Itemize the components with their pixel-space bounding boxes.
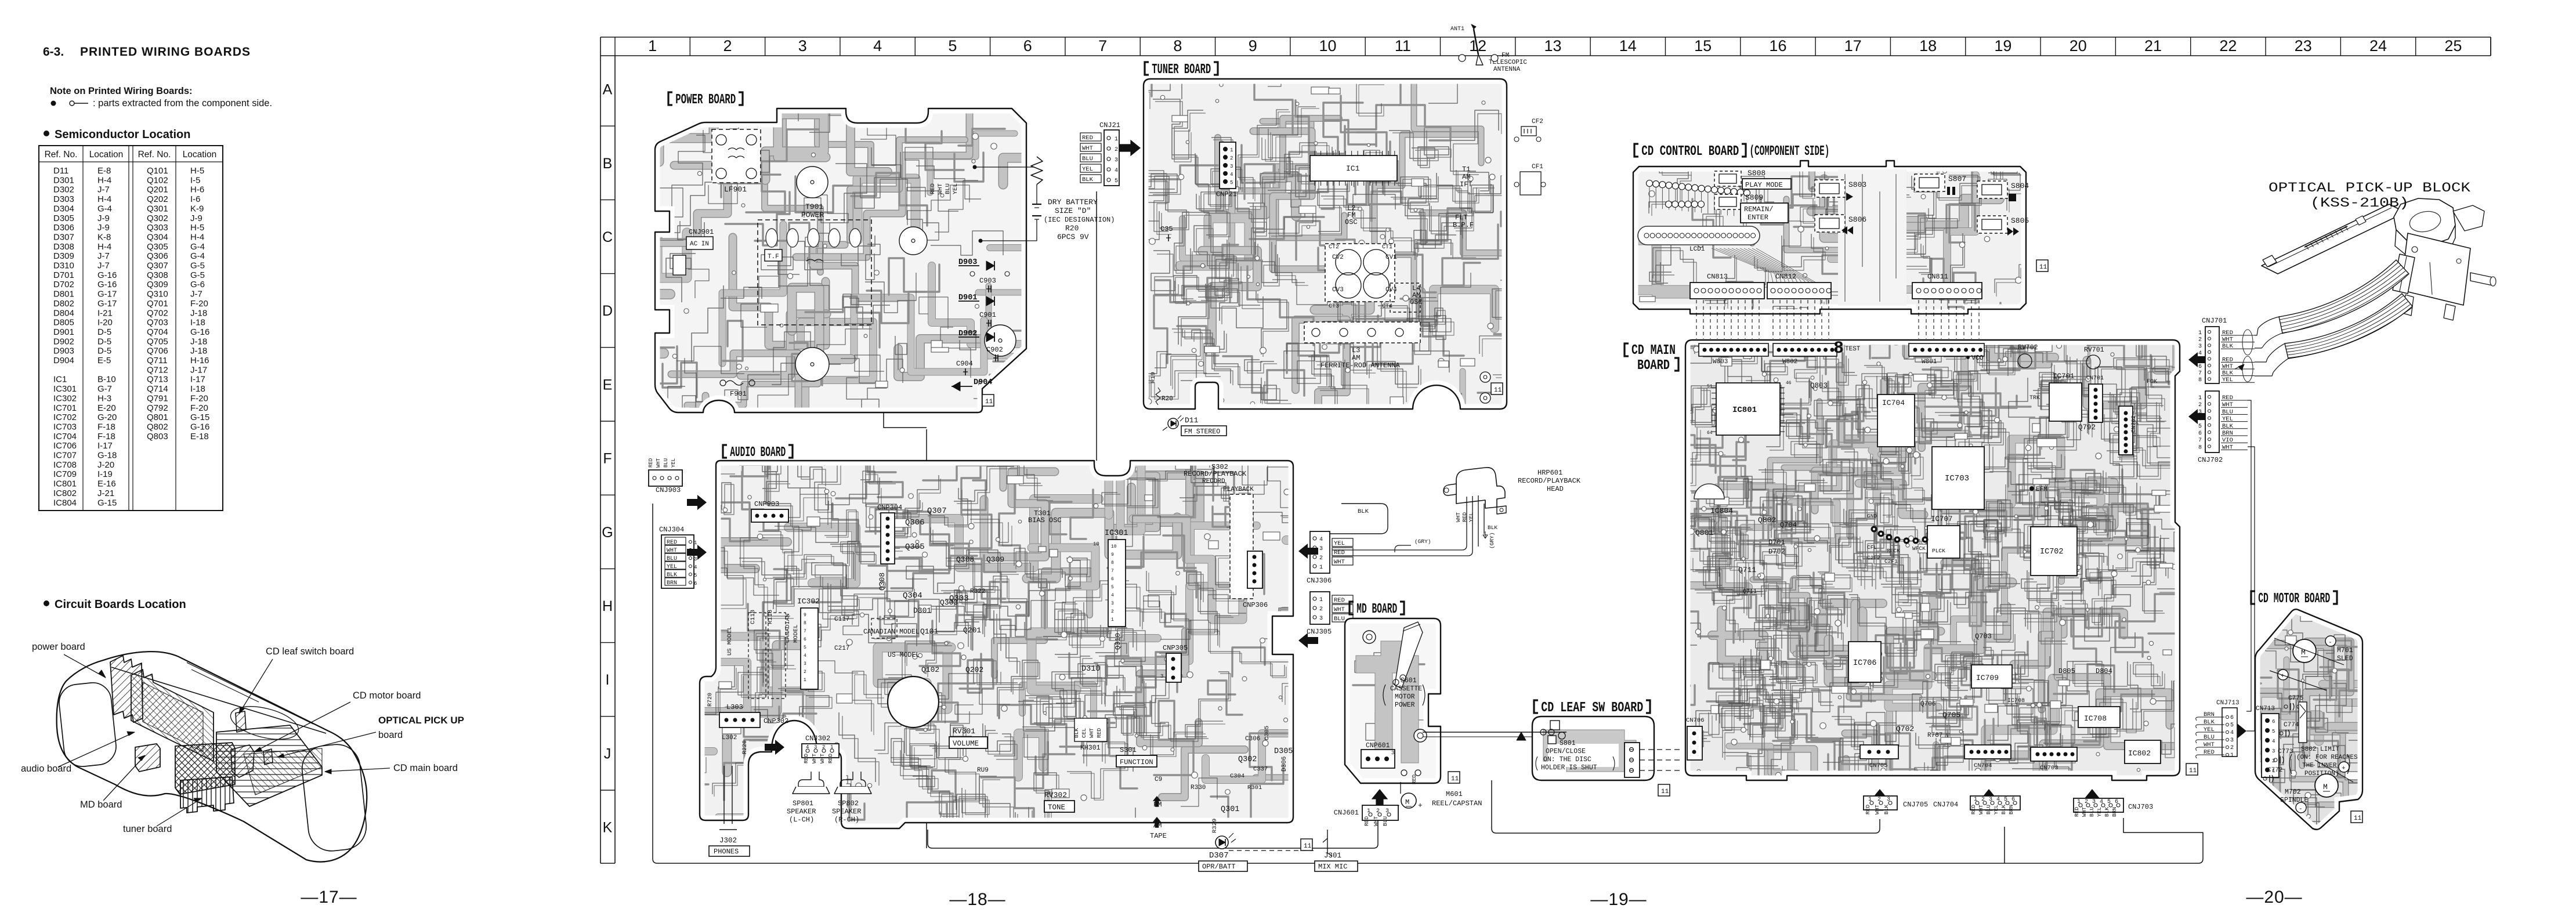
svg-text:US MODEL: US MODEL (888, 652, 920, 659)
svg-text:BLK: BLK (2000, 805, 2007, 815)
svg-text:IC703: IC703 (1945, 474, 1969, 483)
pickup body (2394, 198, 2455, 246)
svg-text:I-18: I-18 (190, 384, 205, 394)
ribbon connector block (2393, 254, 2415, 294)
svg-text:D305: D305 (1274, 747, 1293, 756)
svg-text:SPEAKER: SPEAKER (787, 808, 816, 816)
svg-text:I-5: I-5 (190, 175, 201, 185)
svg-text:RED: RED (827, 754, 834, 763)
svg-text:G-4: G-4 (190, 251, 205, 261)
arrow out right cd main 1 (2188, 352, 2208, 367)
svg-text:Note on Printed Wiring Boards:: Note on Printed Wiring Boards: (50, 86, 193, 96)
svg-text:IFT: IFT (1460, 180, 1472, 189)
switch S809 REMAIN/ENTER (1714, 194, 1741, 209)
svg-text:CN705: CN705 (1869, 762, 1888, 769)
svg-text:I: I (606, 672, 610, 688)
svg-text:D305: D305 (53, 213, 74, 223)
svg-text:TAPE: TAPE (1150, 832, 1167, 840)
wire bottom bus (653, 504, 2203, 863)
svg-text:RED: RED (1461, 512, 1468, 522)
screw marker 11 audio (1301, 839, 1312, 851)
svg-text:5: 5 (2004, 797, 2007, 803)
svg-text:RECORD/PLAYBACK: RECORD/PLAYBACK (1518, 477, 1581, 485)
svg-text:F-20: F-20 (190, 403, 208, 413)
svg-text:Q101: Q101 (147, 166, 168, 176)
svg-text:CNP306: CNP306 (1243, 601, 1268, 609)
leaf sw connector (1625, 743, 1640, 777)
svg-text:IC709: IC709 (1976, 674, 1999, 682)
svg-text:Q304: Q304 (903, 591, 922, 600)
svg-text:4: 4 (806, 744, 809, 750)
svg-text:H-5: H-5 (190, 166, 204, 176)
svg-text:PLCK: PLCK (1932, 548, 1945, 554)
svg-text:7: 7 (804, 629, 806, 634)
svg-text:BLU: BLU (1082, 155, 1093, 162)
svg-text:6: 6 (2115, 799, 2118, 805)
svg-text:IC302: IC302 (53, 393, 77, 403)
record playback switch dashed (1230, 494, 1253, 599)
svg-text:5: 5 (948, 37, 957, 55)
svg-text:T1: T1 (1462, 165, 1470, 173)
svg-text:D310: D310 (53, 261, 74, 271)
svg-text:Q801: Q801 (1695, 529, 1713, 537)
svg-text:IC802: IC802 (53, 488, 77, 498)
svg-text:IC701: IC701 (53, 403, 77, 413)
svg-text:1: 1 (2198, 330, 2202, 336)
pad circle big 4 (985, 325, 1016, 356)
svg-text:2: 2 (2198, 337, 2202, 343)
svg-text:K-9: K-9 (190, 204, 204, 213)
svg-text:FERRITE-ROD ANTENNA: FERRITE-ROD ANTENNA (1320, 361, 1401, 370)
center board hatched panel (175, 743, 235, 794)
svg-text:IC708: IC708 (53, 460, 77, 470)
svg-text:WHT: WHT (656, 458, 661, 468)
svg-text:C217: C217 (834, 645, 849, 652)
svg-text:I-18: I-18 (190, 318, 205, 328)
screw marker 11 control (2036, 260, 2048, 272)
svg-text:DRY BATTERY: DRY BATTERY (1048, 198, 1098, 207)
svg-text:WHT: WHT (937, 183, 944, 194)
svg-text:tuner board: tuner board (123, 824, 172, 834)
arrow audio CNJ304 into board (687, 545, 707, 560)
svg-text:Q306: Q306 (147, 251, 168, 261)
fan sweep traces to CN812 (1712, 248, 1773, 283)
svg-text:Q101: Q101 (920, 627, 938, 636)
svg-text:CNJ704: CNJ704 (1933, 801, 1958, 809)
svg-text:H-4: H-4 (190, 232, 204, 242)
svg-text:IC302: IC302 (797, 597, 820, 606)
svg-text:CD MOTOR BOARD: CD MOTOR BOARD (2258, 591, 2330, 607)
pickup side pin cylinder (2470, 273, 2492, 285)
switch S803 play (1815, 180, 1845, 197)
pad circle big 2 (899, 227, 927, 255)
svg-text:SP802: SP802 (838, 799, 859, 808)
D307 OPR/BATT LED (1215, 836, 1228, 849)
dashed wire audio bottom (1229, 850, 1314, 851)
svg-text:G-16: G-16 (190, 327, 209, 337)
IC708 chip (2078, 707, 2120, 728)
svg-text:Q201: Q201 (963, 626, 981, 635)
svg-text:6: 6 (2198, 364, 2202, 370)
svg-text:RV301: RV301 (953, 727, 975, 736)
svg-text:W803: W803 (1713, 359, 1728, 365)
screw marker 11 tuner (1491, 383, 1503, 395)
ribbon cable lower (2285, 294, 2412, 359)
svg-text:6: 6 (2011, 797, 2015, 803)
svg-text:CNP305: CNP305 (1163, 644, 1188, 652)
svg-text:BOARD: BOARD (1637, 358, 1670, 374)
svg-text:R19: R19 (1150, 372, 1157, 383)
svg-text:OSC: OSC (1345, 218, 1358, 226)
svg-text:4: 4 (804, 653, 806, 658)
leaf sw dashed wires to cd main (1640, 749, 1683, 750)
svg-text:+: + (1418, 801, 1423, 810)
svg-text:J-9: J-9 (97, 223, 110, 233)
svg-text:D804: D804 (2096, 667, 2112, 675)
switch S805 ff (1977, 216, 2007, 233)
svg-text:Location: Location (89, 150, 124, 160)
svg-text:3: 3 (2198, 409, 2202, 415)
svg-text:1: 1 (2077, 799, 2081, 805)
svg-text:BLU: BLU (945, 183, 951, 194)
connector CNJ306 (1310, 531, 1330, 573)
svg-text:6: 6 (2272, 719, 2275, 725)
svg-text:Q308: Q308 (878, 573, 887, 591)
svg-text:YEL: YEL (1993, 805, 1999, 815)
arrow up CNJ705 (1872, 789, 1888, 810)
svg-text:IC1: IC1 (53, 375, 67, 385)
svg-text:CV4: CV4 (1385, 287, 1397, 294)
svg-text:BLU: BLU (667, 556, 677, 562)
svg-text:H-5: H-5 (190, 223, 204, 233)
svg-text:CF2: CF2 (1532, 118, 1543, 125)
IC302 chip (801, 608, 818, 689)
IC701 chip (2049, 383, 2082, 421)
svg-text:RED: RED (803, 754, 809, 763)
svg-text:FUNCTION: FUNCTION (1120, 758, 1153, 766)
svg-text:6: 6 (1023, 37, 1032, 55)
svg-text:FM STEREO: FM STEREO (1184, 428, 1220, 436)
svg-text:BLK: BLK (1073, 728, 1080, 738)
svg-text:S809: S809 (1745, 193, 1763, 202)
svg-text:Q706: Q706 (147, 346, 168, 356)
svg-text:IC707: IC707 (1931, 515, 1953, 523)
top connector W802 (1773, 343, 1837, 356)
cd leaf sw board title (1534, 700, 1538, 713)
speaker SP802 (840, 772, 866, 787)
svg-text:IC704: IC704 (53, 432, 77, 441)
IC703 chip (1932, 447, 1984, 509)
screw marker 11 leaf sw (1658, 784, 1670, 796)
record playback head HRP601 (1456, 468, 1505, 508)
svg-text:16: 16 (1769, 37, 1786, 55)
svg-text:D307: D307 (1209, 851, 1229, 860)
svg-text:H-3: H-3 (97, 393, 111, 403)
svg-text:—20—: —20— (2246, 888, 2302, 907)
connector CNJ703 (2074, 798, 2123, 812)
pickup foot tabs (2403, 295, 2414, 316)
svg-text:G-5: G-5 (190, 261, 205, 271)
svg-text:OPTICAL PICK-UP BLOCK: OPTICAL PICK-UP BLOCK (2269, 180, 2470, 196)
svg-text:L302: L302 (722, 734, 737, 741)
svg-text:4: 4 (2198, 350, 2202, 357)
svg-text:G-4: G-4 (190, 242, 205, 252)
svg-text:D307: D307 (53, 232, 74, 242)
svg-text:FLT: FLT (1455, 213, 1468, 222)
svg-text:D805: D805 (53, 318, 74, 328)
small resistor symbols tuner bottom (1156, 388, 1160, 405)
optical pickup board panel (263, 749, 273, 765)
svg-text:C903: C903 (979, 277, 996, 285)
svg-text:I-20: I-20 (97, 318, 113, 328)
svg-text:2: 2 (1319, 555, 1323, 562)
svg-text:Q302: Q302 (147, 213, 168, 223)
svg-text:—19—: —19— (1590, 890, 1647, 909)
screw marker 11 cd main (2186, 763, 2198, 775)
svg-text:YEL: YEL (952, 183, 959, 194)
svg-text:RFCK: RFCK (1887, 548, 1900, 554)
svg-text:D804: D804 (53, 308, 74, 318)
svg-text:SLED: SLED (2337, 655, 2353, 663)
svg-text:R329: R329 (1211, 819, 1218, 833)
svg-text:6: 6 (2230, 715, 2234, 721)
svg-text:C9: C9 (1155, 776, 1162, 783)
svg-text:CNJ705: CNJ705 (1903, 801, 1928, 809)
svg-text:CFL: CFL (1867, 544, 1877, 551)
svg-text:R20: R20 (1065, 224, 1079, 233)
svg-text:3: 3 (2092, 799, 2096, 805)
svg-text:Q712: Q712 (147, 365, 168, 375)
svg-text:Q301: Q301 (1221, 805, 1239, 814)
svg-text:D303: D303 (53, 194, 74, 204)
svg-text:(COMPONENT SIDE): (COMPONENT SIDE) (1749, 144, 1829, 160)
cd lid circle depression (227, 700, 302, 745)
svg-text:CNJ305: CNJ305 (1307, 628, 1332, 636)
svg-text:6: 6 (2198, 430, 2202, 437)
left cap inner edge (57, 681, 118, 769)
svg-text:G-17: G-17 (97, 289, 117, 299)
svg-text:(L-CH): (L-CH) (789, 816, 814, 824)
svg-text:D: D (602, 303, 613, 319)
front top seam (111, 667, 326, 733)
svg-text:BLK: BLK (1488, 524, 1497, 531)
svg-text:G-16: G-16 (97, 280, 117, 289)
svg-text:J: J (604, 745, 612, 762)
svg-text:RECORD/PLAYBACK: RECORD/PLAYBACK (1184, 470, 1247, 478)
svg-text:CD CONTROL BOARD: CD CONTROL BOARD (1641, 144, 1739, 160)
svg-text:G-17: G-17 (97, 299, 117, 309)
svg-text:10: 10 (1093, 541, 1099, 547)
svg-text:2: 2 (2272, 758, 2275, 764)
svg-text:2: 2 (1319, 606, 1323, 613)
arrow to tuner board (1119, 140, 1141, 157)
svg-text:Q792: Q792 (147, 403, 168, 413)
svg-text:(GRY): (GRY) (1414, 538, 1431, 545)
screw marker 11 motor (2351, 811, 2362, 823)
svg-text:AC IN: AC IN (690, 241, 709, 248)
svg-text:KH301: KH301 (1080, 744, 1101, 752)
svg-text:20: 20 (2070, 37, 2087, 55)
svg-text:REMAIN/: REMAIN/ (1744, 205, 1773, 213)
svg-text:CNJ713: CNJ713 (2216, 700, 2239, 707)
tuner board hatched panel (180, 777, 234, 813)
svg-text:F901: F901 (730, 390, 747, 398)
svg-text:J-9: J-9 (97, 213, 110, 223)
svg-text:AUDIO BOARD: AUDIO BOARD (730, 445, 786, 461)
svg-text:Q711: Q711 (1743, 589, 1757, 595)
svg-text:F-18: F-18 (97, 432, 115, 441)
svg-text:2: 2 (723, 37, 732, 55)
svg-text:Q308: Q308 (147, 270, 168, 280)
svg-text:WHT: WHT (667, 548, 677, 554)
pickup rear arm (2453, 205, 2484, 231)
svg-text:YEL: YEL (667, 564, 677, 570)
svg-text:C117: C117 (834, 616, 849, 623)
svg-text:IC706: IC706 (1853, 659, 1877, 668)
svg-text:WHT: WHT (819, 754, 826, 763)
svg-text:C: C (602, 229, 613, 245)
svg-text:S804: S804 (2011, 182, 2029, 190)
svg-text:5: 5 (1111, 585, 1114, 590)
svg-text:WHT: WHT (2081, 807, 2087, 817)
svg-text:H-4: H-4 (97, 242, 111, 252)
audio board hatched panel (131, 669, 214, 761)
connector CN704 (1964, 745, 2011, 759)
svg-text:S805: S805 (2011, 216, 2029, 225)
svg-text:C775: C775 (2288, 695, 2303, 702)
svg-text:4: 4 (2198, 417, 2202, 423)
svg-text:5: 5 (2272, 729, 2275, 734)
svg-text:G: G (602, 524, 613, 541)
IC802 chip (2125, 740, 2161, 763)
RH301 BLK CEL WHT RED block (1074, 718, 1107, 741)
svg-text:22: 22 (2219, 37, 2237, 55)
svg-text:46: 46 (1786, 381, 1792, 386)
svg-text:1: 1 (648, 37, 657, 55)
svg-text:11: 11 (1661, 788, 1669, 795)
svg-text:1: 1 (830, 744, 833, 750)
svg-text:D11: D11 (1185, 416, 1199, 425)
svg-text:3: 3 (1111, 601, 1114, 606)
svg-text:E-20: E-20 (97, 403, 116, 413)
connector CNP21 tuner (1220, 142, 1236, 189)
pad circle big 1 (797, 167, 828, 198)
svg-text:Circuit Boards Location: Circuit Boards Location (55, 598, 186, 611)
connector CN701 right (2089, 384, 2103, 422)
svg-text:I-17: I-17 (97, 441, 113, 451)
svg-text:BIAS OSC: BIAS OSC (1028, 516, 1062, 524)
svg-text:RED: RED (648, 458, 654, 468)
svg-text:L3: L3 (1352, 346, 1360, 354)
wire CNJ705 loop (1492, 780, 1880, 833)
svg-text:M701: M701 (2337, 647, 2353, 654)
svg-text:J302: J302 (719, 837, 737, 845)
svg-text:RED: RED (1096, 728, 1102, 738)
md lever (1395, 622, 1423, 688)
svg-text:CNP302: CNP302 (764, 717, 788, 725)
svg-text:D801: D801 (53, 289, 74, 299)
svg-text:CT4: CT4 (1382, 303, 1392, 310)
tuner board title (1145, 62, 1149, 75)
svg-text:64: 64 (1707, 430, 1713, 436)
arrow up CNJ704 (1981, 789, 1998, 810)
svg-text:J-18: J-18 (190, 346, 207, 356)
arrow into audio left (765, 740, 784, 755)
svg-text:J-21: J-21 (97, 488, 114, 498)
svg-text:D310: D310 (1081, 665, 1100, 674)
svg-text:Q701: Q701 (147, 299, 168, 309)
svg-text:E: E (603, 377, 613, 393)
svg-text:WHT: WHT (1334, 606, 1345, 613)
svg-text:BLK: BLK (2104, 807, 2110, 817)
arrow up into md board (1372, 789, 1388, 810)
svg-text:3: 3 (1230, 164, 1233, 169)
svg-text:Location: Location (183, 150, 217, 160)
svg-text:BLU: BLU (1985, 805, 1992, 815)
svg-text:Q310: Q310 (147, 289, 168, 299)
svg-text:2: 2 (1230, 155, 1233, 161)
svg-text:audio board: audio board (21, 763, 71, 774)
svg-text:1: 1 (1319, 597, 1323, 603)
pickup bracket plate (2401, 233, 2470, 305)
svg-text:SIZE "D": SIZE "D" (1055, 207, 1091, 215)
svg-text:Q309: Q309 (147, 280, 168, 289)
screw marker 11 md (1448, 772, 1460, 783)
svg-text:YEL: YEL (1334, 540, 1345, 547)
svg-text:IC301: IC301 (1105, 529, 1128, 538)
svg-text:board: board (378, 730, 403, 740)
svg-text:3: 3 (814, 744, 817, 750)
svg-text:D11: D11 (53, 166, 68, 176)
svg-text:11: 11 (2354, 815, 2362, 822)
right cap inner edge (300, 742, 368, 853)
top seam lines (187, 663, 313, 724)
svg-text:: parts extracted from the co: : parts extracted from the component sid… (93, 98, 272, 108)
svg-text:2: 2 (2085, 799, 2088, 805)
svg-text:IC301: IC301 (53, 384, 77, 394)
svg-text:9: 9 (1111, 552, 1114, 558)
svg-text:Q803: Q803 (1810, 382, 1828, 390)
svg-text:(R-CH): (R-CH) (834, 816, 859, 824)
svg-text:CV1: CV1 (1385, 254, 1397, 261)
svg-text:51: 51 (1707, 384, 1713, 389)
svg-text:17: 17 (1844, 37, 1862, 55)
svg-text:5: 5 (1115, 178, 1118, 184)
svg-text:L303: L303 (726, 703, 743, 711)
svg-text:HRP601: HRP601 (1537, 469, 1562, 477)
svg-text:BRN: BRN (2111, 807, 2118, 817)
svg-text:BLK: BLK (1883, 805, 1890, 815)
svg-text:power board: power board (32, 642, 85, 652)
svg-text:K: K (603, 820, 613, 836)
svg-text:4: 4 (1230, 172, 1233, 178)
svg-text:21: 21 (2144, 37, 2162, 55)
svg-text:4: 4 (694, 564, 697, 570)
svg-text:EFM: EFM (2036, 486, 2047, 493)
svg-text:3: 3 (2272, 748, 2275, 754)
svg-text:Q202: Q202 (147, 194, 168, 204)
svg-text:POWER BOARD: POWER BOARD (675, 92, 736, 108)
svg-text:9: 9 (1249, 37, 1257, 55)
svg-text:25: 25 (2444, 37, 2462, 55)
L3 ferrite rod antenna (1304, 322, 1420, 343)
antenna mount pads (1459, 55, 1466, 61)
svg-text:J301: J301 (1324, 852, 1341, 860)
svg-text:SPINDLE: SPINDLE (2280, 797, 2308, 804)
S802 limit switch (2299, 702, 2307, 743)
svg-text:CASSETTE: CASSETTE (1390, 685, 1422, 693)
audio board title (723, 445, 727, 458)
